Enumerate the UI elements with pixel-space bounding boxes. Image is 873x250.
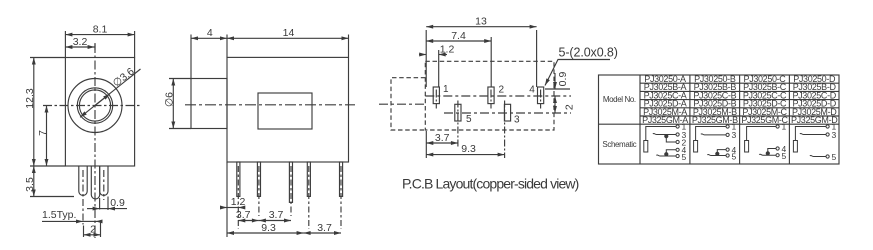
pcb barrel dashed rect bbox=[391, 78, 425, 130]
pcb dim 0.9 tick pad top bbox=[545, 88, 570, 90]
svg-text:3.7: 3.7 bbox=[317, 222, 332, 234]
side view pin 3 bbox=[289, 162, 292, 202]
dim 12.3 line bbox=[33, 58, 35, 167]
side dim 1.2 line bbox=[222, 207, 228, 209]
front view pin 2 bbox=[91, 166, 99, 199]
side view barrel bbox=[191, 79, 227, 129]
schA line 4 bbox=[666, 150, 676, 156]
schA terminal 5 circle bbox=[676, 154, 679, 157]
svg-text:Schematic: Schematic bbox=[602, 140, 636, 149]
svg-text:7.4: 7.4 bbox=[451, 30, 466, 42]
dim 0.9 extension lines bbox=[99, 198, 101, 210]
dim 8.1 extension lines bbox=[64, 31, 66, 58]
svg-text:5: 5 bbox=[832, 152, 837, 162]
schA terminal 2 circle bbox=[676, 140, 679, 143]
pad 1 centerline bbox=[435, 90, 437, 109]
dim 0.9 line with outside arrows bbox=[100, 208, 108, 210]
svg-text:5-(2.0x0.8): 5-(2.0x0.8) bbox=[559, 46, 618, 60]
side view pin 1 bbox=[237, 162, 240, 196]
table outer border bbox=[599, 75, 840, 164]
schematic cell D bbox=[793, 125, 829, 158]
schA terminal 3 circle bbox=[676, 133, 679, 136]
schA junction 3-2 bbox=[666, 135, 676, 143]
pad 3 bbox=[504, 104, 510, 121]
svg-text:2: 2 bbox=[90, 223, 96, 235]
svg-text:8.1: 8.1 bbox=[93, 23, 108, 35]
dim 3.2 line bbox=[65, 46, 94, 48]
dimension texts bbox=[24, 16, 618, 236]
dim 4 line bbox=[191, 37, 227, 39]
front view pin 3 bbox=[100, 166, 108, 196]
pad 1 bbox=[433, 87, 439, 104]
pad 4 bbox=[538, 87, 544, 104]
svg-text:3.7: 3.7 bbox=[236, 209, 251, 221]
front view vertical centerline bbox=[94, 44, 96, 238]
pcb outline dashed rect bbox=[425, 61, 554, 130]
front view ring inner circle bbox=[79, 90, 110, 121]
schematic cell A bbox=[644, 125, 679, 158]
schA wire to 1 bbox=[646, 127, 676, 141]
svg-text:4: 4 bbox=[529, 85, 535, 96]
svg-text:∅6: ∅6 bbox=[164, 92, 176, 107]
front view outer circle bbox=[68, 79, 122, 133]
side view pin 4 bbox=[307, 162, 310, 196]
svg-text:5: 5 bbox=[682, 152, 687, 162]
svg-text:0.9: 0.9 bbox=[557, 72, 569, 87]
schA terminal 4 circle bbox=[676, 148, 679, 151]
dim 14 line bbox=[227, 37, 349, 39]
front view horizontal centerline bbox=[43, 105, 142, 107]
pcb row1 centerline bbox=[425, 95, 571, 97]
svg-text:Model No.: Model No. bbox=[603, 95, 636, 104]
schA sleeve rect bbox=[644, 141, 648, 153]
svg-text:1.2: 1.2 bbox=[231, 196, 246, 208]
svg-text:12.3: 12.3 bbox=[24, 88, 36, 109]
side view pin centerlines bbox=[237, 166, 239, 229]
svg-text:5: 5 bbox=[732, 151, 737, 161]
pcb dim 2 line bbox=[554, 96, 556, 113]
svg-text:3.7: 3.7 bbox=[435, 132, 450, 144]
pcb bottom dim extensions bbox=[425, 131, 427, 158]
front view body bbox=[65, 58, 134, 167]
svg-text:4: 4 bbox=[207, 27, 213, 39]
front view pin3 centerline bbox=[103, 170, 105, 200]
front view ring outer circle bbox=[77, 88, 112, 123]
pcb dim 0.9 line bbox=[554, 73, 556, 89]
side dim 3.7a line bbox=[238, 220, 259, 222]
dim 3.5 line bbox=[33, 166, 35, 197]
svg-text:∅3.6: ∅3.6 bbox=[111, 66, 137, 90]
schA line 3 with hook bbox=[653, 133, 676, 134]
svg-text:0.9: 0.9 bbox=[110, 197, 125, 209]
svg-text:9.3: 9.3 bbox=[461, 143, 476, 155]
dim 3.5 extension line bbox=[30, 196, 74, 198]
side view centerline bbox=[185, 104, 355, 106]
svg-text:2: 2 bbox=[563, 104, 575, 110]
pcb dim 7.4 extension bbox=[490, 37, 492, 87]
svg-text:1.2: 1.2 bbox=[440, 43, 455, 55]
pcb dim 13 line bbox=[426, 26, 536, 28]
dim 2 extension line bbox=[100, 223, 102, 238]
pcb dim 1.2 line bbox=[419, 54, 426, 56]
svg-text:1: 1 bbox=[443, 84, 449, 95]
side dim 9.3 line bbox=[227, 232, 304, 234]
side dim 3.7b line bbox=[259, 220, 291, 222]
svg-text:3: 3 bbox=[832, 130, 837, 140]
dim 8.1 line bbox=[65, 34, 134, 36]
svg-text:9.3: 9.3 bbox=[261, 222, 276, 234]
pad callout leader bbox=[545, 60, 610, 86]
dim 3.2 extension bbox=[94, 43, 96, 50]
svg-text:7: 7 bbox=[37, 130, 49, 136]
svg-text:14: 14 bbox=[283, 27, 295, 39]
side dim 3.7c line bbox=[304, 232, 341, 234]
front view pin1 centerline bbox=[82, 170, 84, 225]
svg-text:P.C.B Layout(copper-sided view: P.C.B Layout(copper-sided view) bbox=[402, 176, 579, 192]
dim 14 extension lines bbox=[226, 35, 228, 58]
pad 5 bbox=[455, 104, 461, 121]
svg-text:3.7: 3.7 bbox=[269, 209, 284, 221]
pcb dim 3.7 line bbox=[426, 142, 458, 144]
svg-text:3.5: 3.5 bbox=[24, 177, 36, 192]
pcb barrel centerline bbox=[379, 103, 425, 105]
dim phi3.6 leader line bbox=[80, 69, 140, 117]
pad 2 centerline bbox=[490, 90, 492, 109]
svg-text:5: 5 bbox=[466, 114, 472, 125]
svg-text:3: 3 bbox=[514, 114, 520, 125]
svg-text:1: 1 bbox=[782, 122, 787, 132]
svg-text:3: 3 bbox=[732, 130, 737, 140]
svg-text:2: 2 bbox=[499, 85, 505, 96]
schA terminal 1 circle bbox=[676, 125, 679, 128]
schematic cell B bbox=[694, 125, 730, 157]
table column lines bbox=[639, 75, 641, 164]
table row lines bbox=[640, 82, 839, 84]
dim phi6 extension lines bbox=[169, 78, 191, 80]
dim phi6 line bbox=[172, 79, 174, 129]
front view pin 1 bbox=[79, 166, 87, 195]
pcb dim 9.3 line bbox=[426, 154, 504, 156]
svg-text:1.5Typ.: 1.5Typ. bbox=[42, 209, 76, 221]
pcb dim 7.4 line bbox=[426, 40, 491, 42]
dim 4 extension line bbox=[190, 35, 192, 79]
side view body bbox=[227, 57, 349, 162]
dim 1.5Typ line with outside arrows bbox=[42, 220, 83, 222]
side view pin 2 bbox=[257, 162, 260, 196]
dim 2 line bbox=[84, 234, 101, 236]
side view face hole rect bbox=[258, 93, 312, 129]
pcb row2 centerline bbox=[444, 112, 571, 114]
side view pin 5 bbox=[340, 162, 343, 196]
schA line 5 with hook bbox=[656, 155, 676, 156]
svg-text:5: 5 bbox=[782, 151, 787, 161]
schematic cell C bbox=[745, 125, 780, 157]
table texts bbox=[602, 95, 636, 149]
pcb dim 1.2 extension bbox=[438, 50, 440, 87]
pcb dim 13 extension lines bbox=[425, 30, 427, 87]
pad 2 bbox=[488, 87, 494, 104]
svg-text:13: 13 bbox=[475, 16, 487, 28]
dim 12.3 extension lines bbox=[30, 57, 65, 59]
pad 4 centerline bbox=[540, 90, 542, 109]
svg-text:3.2: 3.2 bbox=[73, 36, 88, 48]
dim 7 line bbox=[46, 106, 48, 167]
side dim 1.2 extension bbox=[226, 162, 228, 237]
